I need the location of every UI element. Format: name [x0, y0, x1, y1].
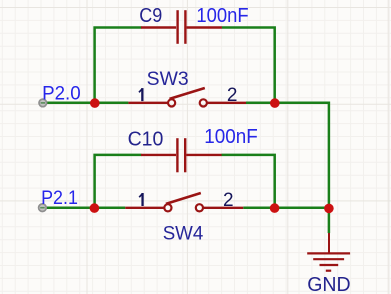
junction dot: loop1 right	[270, 98, 280, 108]
wire: loop1 top-right (from C9 right lead down to P2.0 row)	[222, 28, 275, 103]
wire: bus junction down toward ground	[328, 208, 331, 233]
svg-text:2: 2	[223, 190, 234, 211]
wire: P2.1 pin to SW4 pin1	[42, 207, 125, 210]
junction dot: loop2 right	[270, 203, 280, 213]
ground	[307, 233, 350, 271]
switch SW4	[125, 193, 243, 211]
wire: SW4 pin2 to bus junction	[243, 207, 329, 210]
capacitor C9	[141, 10, 222, 44]
wire: loop2 top-left (vertical x=94.6 + top segment to C10)	[95, 155, 142, 208]
junction dot: loop1 left	[90, 98, 100, 108]
svg-text:P2.1: P2.1	[41, 187, 78, 209]
svg-text:C9: C9	[139, 5, 162, 27]
svg-text:C10: C10	[128, 128, 164, 150]
junction dot: bus/ground	[324, 204, 334, 214]
pin terminal P2.0	[39, 99, 47, 107]
wire: SW3 pin2 to right bus, down to P2.1 row	[246, 103, 329, 208]
wire: P2.0 pin to SW3 pin1	[43, 102, 129, 105]
switch SW3	[128, 88, 246, 107]
svg-text:GND: GND	[307, 274, 350, 294]
svg-text:P2.0: P2.0	[42, 82, 81, 104]
svg-text:SW4: SW4	[163, 224, 204, 245]
svg-text:100nF: 100nF	[204, 126, 257, 148]
pin terminal P2.1	[39, 204, 47, 212]
svg-text:2: 2	[227, 85, 238, 106]
svg-text:SW3: SW3	[147, 69, 189, 90]
wire: loop1 top-left (vertical x=94.6 + top segment to C9)	[95, 28, 142, 103]
pin number 1 (SW3)	[139, 88, 142, 101]
svg-text:100nF: 100nF	[196, 5, 248, 27]
capacitor C10	[141, 138, 222, 172]
junction dot: loop2 left	[90, 203, 100, 213]
pin number 1 (SW4)	[139, 193, 142, 206]
wire: loop2 top-right (from C10 right lead down to P2.1 row)	[222, 155, 275, 208]
